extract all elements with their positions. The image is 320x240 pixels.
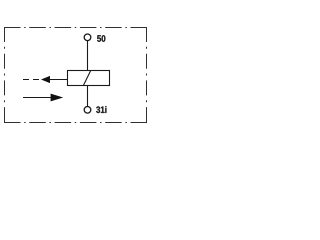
terminal 31i (circle) (84, 107, 91, 114)
output arrow head (right-pointing) (51, 94, 64, 102)
terminal label 50 (97, 35, 105, 42)
control input arrow head (left-pointing) (41, 76, 50, 83)
wire: terminal 50 to relay box (87, 41, 89, 71)
component boundary bottom (dash-dot) (4, 122, 147, 124)
wire: relay box to terminal 31i (87, 86, 89, 107)
control input arrow shaft to relay box (50, 79, 68, 81)
relay element box (68, 71, 110, 86)
component boundary right (dash-dot) (146, 27, 148, 123)
component boundary left (dash-dot) (4, 27, 6, 123)
control input arrow line (dashed), pointing left (23, 79, 39, 81)
component boundary top (dash-dot) (4, 27, 147, 29)
output arrow shaft (solid) (23, 97, 52, 99)
relay box diagonal stroke (84, 71, 91, 86)
terminal label 31i (96, 106, 106, 113)
terminal 50 (circle) (84, 34, 91, 41)
